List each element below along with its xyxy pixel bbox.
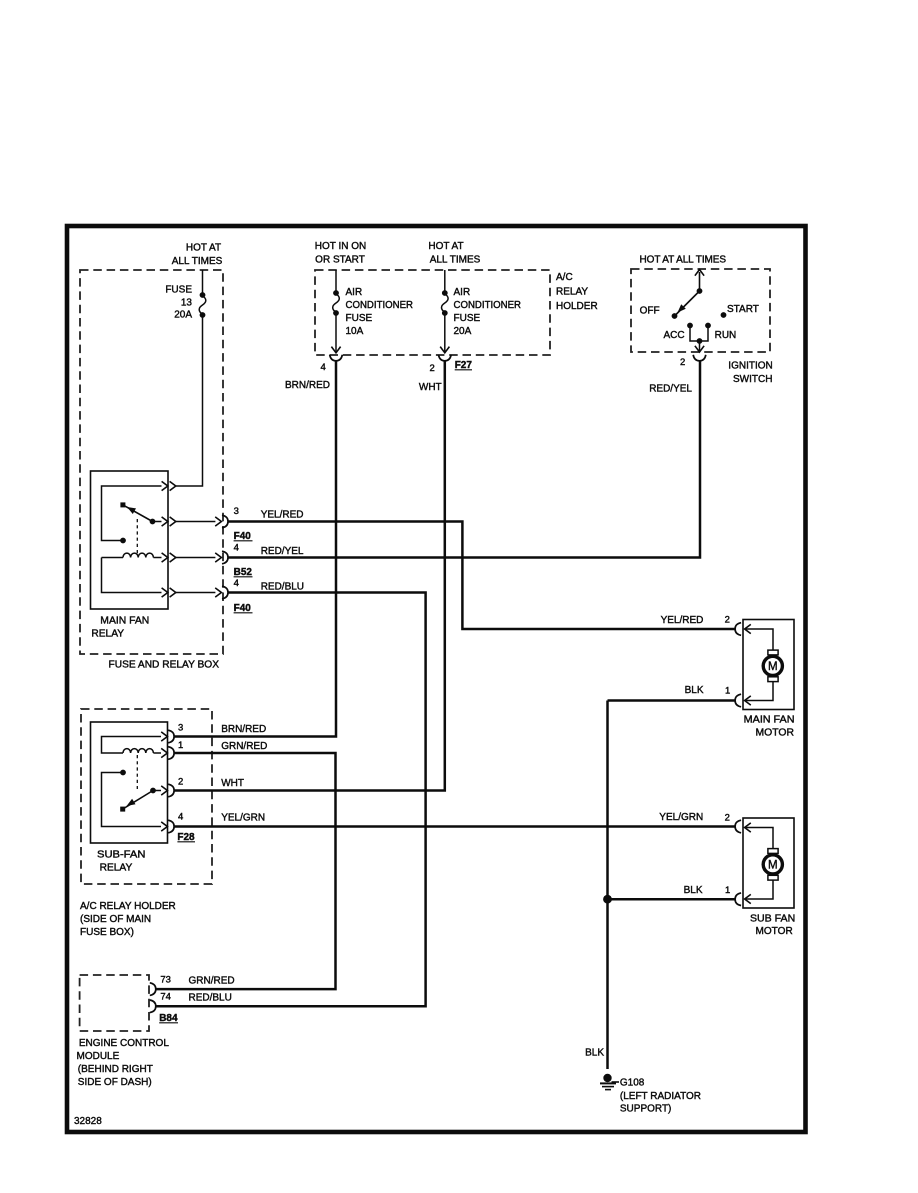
wire fuse 20A top lead	[444, 270, 446, 291]
wire RED/BLU main relay to ECM pin 74	[156, 593, 426, 1007]
svg-text:BLK: BLK	[685, 685, 704, 696]
main relay armature arm	[125, 506, 153, 522]
svg-text:1: 1	[178, 740, 183, 751]
main relay mechanical link (dashed)	[136, 519, 138, 555]
brush bottom	[768, 875, 778, 880]
svg-text:2: 2	[178, 777, 183, 788]
svg-text:YEL/RED: YEL/RED	[261, 510, 304, 521]
ignition ACC-RUN bracket	[690, 326, 708, 341]
svg-text:2: 2	[725, 813, 730, 824]
inner wire to pin1	[745, 682, 773, 701]
main relay pin chevrons top row	[162, 481, 168, 490]
wire fuse 10A bottom lead with arrow	[335, 314, 337, 352]
svg-text:10A: 10A	[346, 326, 364, 337]
A/C relay holder (side) dashed box	[81, 709, 212, 884]
ignition output dot	[697, 338, 703, 344]
svg-text:RED/BLU: RED/BLU	[189, 993, 232, 1004]
svg-text:YEL/GRN: YEL/GRN	[221, 813, 265, 824]
wire GRN/RED sub relay pin 1 to ECM pin 73	[156, 753, 336, 989]
svg-text:20A: 20A	[454, 326, 472, 337]
wire BLK sub fan motor	[608, 898, 735, 901]
wire bottom pin to box edge	[176, 592, 216, 594]
svg-text:2: 2	[725, 615, 730, 626]
svg-text:YEL/RED: YEL/RED	[661, 615, 704, 626]
relay U1 main fan relay box	[91, 471, 169, 609]
svg-text:A/C RELAY HOLDER: A/C RELAY HOLDER	[80, 901, 176, 912]
label A/C RELAY HOLDER	[556, 272, 598, 312]
wire fuse 20A bottom lead with arrow	[444, 314, 446, 352]
svg-text:RUN: RUN	[715, 330, 737, 341]
motor circle	[763, 855, 782, 874]
svg-text:OR START: OR START	[315, 255, 365, 266]
pin 1 arrow	[745, 894, 751, 903]
svg-text:BRN/RED: BRN/RED	[221, 724, 266, 735]
wire pin3 to box edge	[176, 521, 216, 523]
svg-text:ALL TIMES: ALL TIMES	[430, 255, 481, 266]
ignition switch dashed box	[631, 269, 770, 352]
fuse A/C 10A	[333, 290, 340, 316]
main relay fixed contact dot	[120, 538, 126, 544]
svg-text:(SIDE OF MAIN: (SIDE OF MAIN	[80, 914, 151, 925]
sub relay pin 3 connector	[161, 732, 167, 741]
inner wire pin2 to armature	[745, 828, 773, 849]
sub relay armature arrowhead	[127, 799, 136, 806]
connector cup main motor pin 1	[735, 694, 741, 707]
svg-text:GRN/RED: GRN/RED	[189, 976, 235, 987]
connector cup fuse 10A	[330, 355, 343, 361]
svg-text:BLK: BLK	[585, 1048, 604, 1059]
svg-text:4: 4	[178, 812, 183, 823]
svg-text:2: 2	[430, 363, 435, 374]
svg-text:HOT IN ON: HOT IN ON	[315, 241, 366, 252]
main relay pin chevrons coil row	[162, 553, 168, 562]
ECM pin 73 connector cup	[150, 983, 156, 996]
sub relay pin 1 connector	[161, 748, 167, 757]
main relay internal wire: top pin to contact	[102, 486, 162, 541]
svg-text:RELAY: RELAY	[556, 287, 588, 298]
sub relay armature end square	[120, 807, 125, 812]
sub relay internal wire: pin 3 to coil	[102, 737, 162, 754]
fuse and relay box (dashed enclosure)	[80, 270, 223, 654]
ECM pin 74 connector cup	[150, 1000, 156, 1013]
pin 1 arrow	[745, 696, 751, 705]
svg-text:ACC: ACC	[664, 330, 685, 341]
motor circle	[763, 656, 782, 675]
connector cup main motor pin 2	[735, 623, 741, 636]
svg-text:74: 74	[160, 992, 171, 1003]
wire BLK bus vertical	[606, 701, 609, 1070]
ignition wiper arm	[675, 291, 700, 316]
svg-text:AIR: AIR	[346, 287, 363, 298]
ignition RUN contact dot	[705, 323, 711, 329]
wire RED/YEL main relay to ignition switch	[228, 361, 700, 558]
svg-text:MOTOR: MOTOR	[756, 926, 793, 937]
label ENGINE CONTROL MODULE (BEHIND RIGHT SIDE OF DASH)	[77, 1038, 170, 1088]
svg-text:WHT: WHT	[419, 382, 442, 393]
brush top	[768, 849, 778, 854]
fuse 13 20A	[199, 292, 206, 318]
svg-text:4: 4	[234, 578, 239, 589]
svg-text:FUSE: FUSE	[165, 285, 192, 296]
svg-text:BRN/RED: BRN/RED	[285, 380, 330, 391]
svg-text:HOLDER: HOLDER	[556, 301, 598, 312]
svg-text:AIR: AIR	[454, 287, 471, 298]
svg-text:3: 3	[234, 506, 239, 517]
svg-text:OFF: OFF	[640, 306, 660, 317]
brush top	[768, 650, 778, 655]
wire BLK main fan motor to ground bus	[608, 699, 735, 702]
main relay armature arrowhead	[127, 507, 136, 514]
motor M1 main fan motor	[743, 620, 794, 710]
svg-text:HOT AT: HOT AT	[186, 243, 221, 254]
ignition feed arrow up	[699, 272, 701, 291]
fuse A/C 20A	[442, 290, 449, 316]
svg-text:MAIN FAN: MAIN FAN	[744, 715, 795, 726]
pin 2 arrow	[745, 624, 751, 633]
main relay pin chevrons row 3	[162, 517, 168, 526]
svg-text:MAIN FAN: MAIN FAN	[100, 616, 149, 627]
sub relay internal wire: pin 2 row	[153, 790, 161, 792]
svg-text:YEL/GRN: YEL/GRN	[659, 812, 703, 823]
wire WHT fuse 20A to sub relay pin 2	[174, 361, 445, 791]
main relay armature end square	[120, 502, 125, 507]
wire BRN/RED fuse 10A to sub relay pin 3	[174, 361, 336, 737]
connector cup ignition pin 2	[693, 355, 706, 361]
svg-text:SIDE OF DASH): SIDE OF DASH)	[78, 1077, 152, 1088]
svg-text:FUSE: FUSE	[346, 313, 373, 324]
sub relay internal wire: contact to pin 4	[102, 773, 162, 827]
svg-text:HOT AT: HOT AT	[428, 241, 463, 252]
ignition START contact dot	[721, 312, 727, 318]
svg-text:MODULE: MODULE	[77, 1051, 120, 1062]
connector cup sub motor pin 2	[735, 820, 741, 833]
wire YEL/GRN sub relay pin 4 to sub fan motor	[174, 825, 735, 828]
main relay coil	[123, 553, 153, 557]
sub relay fixed contact dot	[120, 770, 126, 776]
svg-text:HOT AT ALL TIMES: HOT AT ALL TIMES	[640, 255, 727, 266]
main relay pin chevrons bottom row	[162, 588, 168, 597]
motor box	[743, 818, 794, 908]
relay U2 sub-fan relay box	[91, 722, 168, 843]
pin 2 arrow	[745, 823, 751, 832]
ground G108	[600, 1074, 619, 1090]
ignition OFF contact dot	[672, 313, 678, 319]
svg-text:GRN/RED: GRN/RED	[221, 741, 267, 752]
svg-text:RED/YEL: RED/YEL	[649, 384, 692, 395]
svg-text:RELAY: RELAY	[100, 863, 133, 874]
wire coil pin to box edge	[176, 557, 216, 559]
svg-text:FUSE AND RELAY BOX: FUSE AND RELAY BOX	[109, 660, 220, 671]
connector cup fuse 20A	[439, 355, 452, 361]
sub relay mechanical link (dashed)	[136, 755, 138, 789]
svg-text:CONDITIONER: CONDITIONER	[454, 300, 522, 311]
svg-text:MOTOR: MOTOR	[756, 728, 795, 739]
ignition output lead arrow down	[699, 341, 701, 351]
inner wire to pin1	[745, 880, 773, 899]
svg-text:G108: G108	[620, 1078, 645, 1089]
svg-text:1: 1	[725, 686, 730, 697]
wire fuse 13 to main fan relay pin	[176, 316, 203, 486]
motor M2 sub fan motor	[743, 818, 794, 908]
sub relay coil	[123, 749, 153, 753]
svg-text:BLK: BLK	[684, 885, 703, 896]
sub relay armature pivot dot	[150, 788, 156, 794]
wire fuse 13 top lead	[202, 270, 204, 293]
svg-text:SUB-FAN: SUB-FAN	[97, 850, 145, 861]
connector cup sub motor pin 1	[735, 893, 741, 906]
node HOT IN ON OR START	[315, 241, 366, 266]
svg-text:RELAY: RELAY	[91, 629, 124, 640]
node HOT AT ALL TIMES (center)	[428, 241, 480, 266]
motor box	[743, 620, 794, 710]
svg-text:A/C: A/C	[556, 272, 573, 283]
svg-text:SUPPORT): SUPPORT)	[620, 1104, 672, 1115]
ignition ACC contact dot	[687, 323, 693, 329]
main relay coil row lead	[102, 557, 124, 559]
brush bottom	[768, 677, 778, 682]
svg-text:4: 4	[321, 362, 326, 373]
svg-text:M: M	[768, 860, 778, 872]
A/C relay holder (top) dashed box	[315, 270, 550, 355]
svg-text:32828: 32828	[74, 1116, 102, 1127]
svg-text:20A: 20A	[174, 310, 192, 321]
junction dot BLK	[603, 895, 612, 904]
sub relay pin 2 connector	[161, 786, 167, 795]
main relay armature pivot dot	[150, 519, 156, 525]
sub relay pin 4 connector	[161, 822, 167, 831]
svg-text:(LEFT RADIATOR: (LEFT RADIATOR	[620, 1091, 701, 1102]
svg-text:FUSE BOX): FUSE BOX)	[80, 927, 134, 938]
label A/C RELAY HOLDER (SIDE OF MAIN FUSE BOX)	[80, 901, 176, 938]
svg-text:CONDITIONER: CONDITIONER	[346, 300, 414, 311]
svg-text:FUSE: FUSE	[454, 313, 481, 324]
svg-text:(BEHIND RIGHT: (BEHIND RIGHT	[78, 1064, 153, 1075]
main relay internal wire: coil to bottom pin	[102, 558, 162, 593]
ignition pivot dot	[697, 288, 703, 294]
svg-text:SUB FAN: SUB FAN	[750, 914, 795, 925]
wire YEL/RED main relay to main fan motor	[228, 522, 735, 630]
svg-text:73: 73	[160, 975, 171, 986]
svg-text:13: 13	[181, 298, 193, 309]
svg-text:RED/BLU: RED/BLU	[261, 582, 304, 593]
inner wire pin2 to armature	[745, 629, 773, 650]
svg-text:4: 4	[234, 543, 239, 554]
node HOT AT ALL TIMES (left)	[172, 243, 223, 268]
svg-text:3: 3	[178, 723, 183, 734]
wire fuse 10A top lead	[335, 270, 337, 291]
border frame	[67, 226, 806, 1132]
ignition arm arrowhead	[678, 304, 686, 312]
svg-text:RED/YEL: RED/YEL	[261, 546, 304, 557]
svg-text:2: 2	[680, 357, 685, 368]
svg-text:SWITCH: SWITCH	[733, 374, 772, 385]
svg-text:M: M	[768, 661, 778, 673]
svg-text:ENGINE CONTROL: ENGINE CONTROL	[79, 1038, 169, 1049]
main relay internal wire: pin 3 row	[153, 521, 162, 523]
svg-text:WHT: WHT	[221, 778, 244, 789]
svg-text:IGNITION: IGNITION	[728, 361, 772, 372]
ECM dashed box	[80, 975, 149, 1031]
svg-text:1: 1	[725, 885, 730, 896]
svg-text:START: START	[727, 304, 759, 315]
svg-text:ALL TIMES: ALL TIMES	[172, 256, 223, 267]
sub relay armature arm	[125, 791, 154, 809]
